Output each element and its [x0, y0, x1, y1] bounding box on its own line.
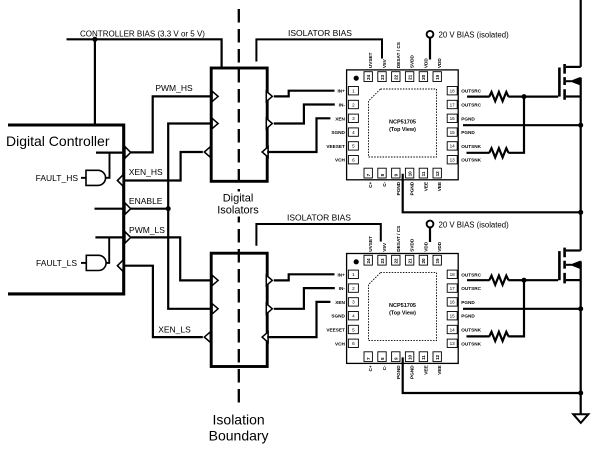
- wire PWM_HS: [131, 96, 211, 152]
- svg-text:OUTSNK: OUTSNK: [461, 144, 481, 149]
- U1 pin 13 OUTSNK: [447, 156, 481, 164]
- wire PGND HS: [463, 124, 581, 126]
- U6 pin 7 C+: [364, 352, 373, 372]
- wire OUTSNK resistor to gate node HS: [508, 97, 524, 153]
- transistor Q1 channel bar: [563, 64, 566, 100]
- transistor Q1 body stub and arrow: [566, 78, 580, 85]
- transistor Q2 body stub and arrow: [566, 261, 580, 268]
- op-amp U1 NCP51705 gate driver body: [347, 70, 459, 180]
- pin PWM_HS output chevron: [125, 147, 131, 159]
- U6 pin 6 VCH: [335, 339, 358, 347]
- wire XEN_LS: [123, 266, 203, 337]
- svg-text:8: 8: [380, 357, 385, 360]
- U6 pin 16 PGND: [447, 298, 475, 306]
- U6 pin 19 VDD: [433, 241, 442, 265]
- U1 pin 10 PGND: [405, 168, 414, 195]
- svg-text:20 V BIAS (isolated): 20 V BIAS (isolated): [439, 31, 510, 40]
- isolator U5 digital isolator LS: [211, 253, 267, 366]
- U6 pin 11 VEE: [419, 352, 428, 375]
- svg-text:15: 15: [450, 130, 456, 135]
- U1 pin 7 C+: [364, 168, 373, 188]
- resistor R2 gate sink resistor HS: [489, 148, 508, 157]
- svg-text:Isolators: Isolators: [217, 205, 259, 217]
- U6 pin 3 XEN: [335, 298, 358, 306]
- U6 pin 2 IN-: [339, 284, 359, 292]
- svg-text:(Top View): (Top View): [389, 311, 416, 317]
- svg-text:1: 1: [352, 272, 355, 277]
- svg-text:6: 6: [352, 341, 355, 346]
- svg-text:3: 3: [352, 300, 355, 305]
- op-amp U6 NCP51705 gate driver body: [347, 254, 459, 364]
- label Isolation Boundary: [209, 411, 269, 443]
- wire ENABLE stub: [95, 208, 124, 210]
- wire PWM_HS stub: [96, 152, 124, 154]
- U6 pin 24 UVSET: [364, 236, 373, 265]
- svg-text:23: 23: [380, 258, 385, 264]
- U1 pin 16 PGND: [447, 114, 475, 122]
- U4 digital isolator HS right output chevron B: [266, 118, 272, 128]
- U6 pin 22 DESAT / CS: [392, 226, 401, 265]
- U6 pin 17 OUTSRC: [447, 284, 481, 292]
- label Digital Isolators: [216, 192, 261, 217]
- svg-text:24: 24: [366, 74, 371, 80]
- svg-text:8: 8: [380, 173, 385, 176]
- isolator U4 digital isolator HS: [211, 68, 267, 181]
- svg-text:5: 5: [352, 144, 355, 149]
- wire PWM_LS: [131, 237, 211, 280]
- pin XEN_HS input chevron: [117, 175, 123, 187]
- svg-text:3: 3: [352, 116, 355, 121]
- svg-text:VEE: VEE: [437, 365, 442, 374]
- svg-text:UVSET: UVSET: [368, 52, 373, 68]
- svg-text:20: 20: [421, 258, 426, 264]
- svg-text:7: 7: [366, 173, 371, 176]
- transistor Q2 source stub: [566, 279, 581, 281]
- U6 pin 12 VEE: [433, 352, 442, 375]
- U1 pin 4 SGND: [331, 128, 358, 136]
- wire HS source rail: [580, 78, 582, 251]
- net ISOLATOR BIAS wire HS: [256, 39, 382, 61]
- svg-text:VCH: VCH: [335, 341, 346, 346]
- U1 pin 6 VCH: [335, 156, 358, 164]
- wire OUTSRC resistor to gate node HS: [508, 95, 524, 97]
- svg-text:OUTSRC: OUTSRC: [461, 286, 481, 291]
- junction gate node HS: [522, 94, 527, 99]
- wire PGND bottom LS: [403, 357, 581, 393]
- svg-text:Isolation: Isolation: [213, 411, 265, 427]
- svg-text:10: 10: [407, 171, 412, 177]
- U1 pin 9 PGND: [392, 168, 401, 195]
- pin XEN_LS input chevron: [117, 260, 123, 272]
- wire LS source rail to ground: [580, 261, 582, 414]
- net ISOLATOR BIAS wire LS: [256, 224, 380, 246]
- svg-text:22: 22: [394, 74, 399, 80]
- transistor Q2 drain stub: [566, 249, 581, 251]
- wire PWM_LS stub: [95, 236, 123, 238]
- svg-text:PGND: PGND: [410, 181, 415, 195]
- svg-text:SGND: SGND: [331, 130, 345, 135]
- wire gate node to MOSFET gate HS: [524, 95, 558, 97]
- wire PGND bottom HS: [403, 174, 581, 213]
- U6 pin 23 V5V: [378, 242, 387, 265]
- svg-text:16: 16: [450, 300, 456, 305]
- U6 pin 15 PGND: [447, 312, 475, 320]
- wire OUTSNK resistor to gate node LS: [508, 280, 524, 336]
- svg-text:NCP51705: NCP51705: [389, 303, 416, 309]
- wire ENABLE to HS isolator: [168, 124, 210, 209]
- svg-text:18: 18: [450, 272, 456, 277]
- U6 pin 20 VDD: [419, 241, 428, 265]
- wire gate node to MOSFET gate LS: [524, 279, 558, 281]
- svg-text:11: 11: [421, 355, 426, 360]
- svg-text:PGND: PGND: [461, 314, 475, 319]
- U1 pin 11 VEE: [419, 168, 428, 191]
- svg-text:OUTSNK: OUTSNK: [461, 328, 481, 333]
- svg-text:19: 19: [435, 258, 440, 264]
- svg-text:SVDD: SVDD: [410, 54, 415, 68]
- U1 pin 24 UVSET: [364, 52, 373, 81]
- U1 pin 20 VDD: [419, 58, 428, 82]
- svg-text:2: 2: [352, 286, 355, 291]
- U6 pin 8 C-: [378, 352, 387, 371]
- U6 pin 4 SGND: [331, 312, 358, 320]
- U1 pin 3 XEN: [335, 114, 358, 122]
- gate U2 FAULT_HS AND gate: [86, 170, 106, 185]
- wire HS drain to top bus: [580, 0, 582, 67]
- svg-text:7: 7: [366, 357, 371, 360]
- wire IN- LS: [274, 288, 335, 309]
- svg-text:FAULT_LS: FAULT_LS: [36, 258, 77, 268]
- isolation boundary dashed line: [238, 9, 240, 408]
- svg-text:FAULT_HS: FAULT_HS: [36, 173, 79, 183]
- svg-text:18: 18: [450, 89, 456, 94]
- svg-text:5: 5: [352, 327, 355, 332]
- svg-text:16: 16: [450, 116, 456, 121]
- U4 digital isolator HS right output chevron A: [266, 91, 272, 101]
- svg-text:(Top View): (Top View): [389, 127, 416, 133]
- svg-text:Digital: Digital: [223, 193, 254, 205]
- svg-text:XEN: XEN: [335, 116, 345, 121]
- U5 digital isolator LS right output chevron B: [266, 304, 272, 314]
- svg-text:OUTSNK: OUTSNK: [461, 341, 481, 346]
- svg-text:14: 14: [450, 327, 456, 332]
- svg-text:9: 9: [394, 357, 399, 360]
- svg-text:2: 2: [352, 102, 355, 107]
- svg-text:VDD: VDD: [423, 241, 428, 252]
- transistor Q1 gate bar: [558, 68, 561, 97]
- wire FAULT_LS input stub: [81, 262, 87, 264]
- U6 pin 13 OUTSNK: [447, 339, 481, 347]
- U4 digital isolator HS input chevron B: [212, 118, 218, 128]
- wire FAULT_HS input stub: [81, 177, 86, 179]
- wire IN+ LS: [274, 274, 335, 280]
- wire OUTSNK LS: [467, 335, 490, 337]
- U1 pin 8 C-: [378, 168, 387, 187]
- svg-text:Digital Controller: Digital Controller: [6, 133, 110, 149]
- svg-text:11: 11: [421, 171, 426, 176]
- svg-text:UVSET: UVSET: [368, 236, 373, 252]
- svg-text:PWM_HS: PWM_HS: [155, 83, 193, 93]
- pin ENABLE output chevron: [125, 203, 131, 215]
- transistor Q2 gate bar: [558, 251, 561, 280]
- svg-text:20: 20: [421, 74, 426, 80]
- pin PWM_LS output chevron: [125, 232, 131, 244]
- U4 digital isolator HS right input chevron XEN: [262, 147, 268, 157]
- wire FAULT_LS gate output: [106, 237, 109, 263]
- U1 pin 2 IN-: [339, 100, 359, 108]
- svg-text:NCP51705: NCP51705: [389, 120, 416, 126]
- digital controller block: [6, 125, 124, 294]
- svg-text:C-: C-: [382, 365, 387, 370]
- terminal 20 V BIAS (isolated) HS: [427, 31, 434, 60]
- U1 pin 12 VEE: [433, 168, 442, 191]
- U1 pin 14 OUTSNK: [447, 142, 481, 150]
- transistor Q1 drain stub: [566, 66, 581, 68]
- svg-text:PGND: PGND: [461, 116, 475, 121]
- svg-text:13: 13: [450, 341, 456, 346]
- svg-text:15: 15: [450, 314, 456, 319]
- svg-text:20 V BIAS (isolated): 20 V BIAS (isolated): [439, 220, 510, 229]
- wire IN+ HS: [274, 91, 335, 97]
- U6 pin 1 IN+: [337, 270, 358, 278]
- wire OUTSNK HS: [467, 152, 490, 154]
- junction VEE return HS: [578, 210, 583, 215]
- svg-text:VCH: VCH: [335, 158, 346, 163]
- gate U3 FAULT_LS AND gate: [86, 255, 106, 270]
- U1 pin 1 IN+: [337, 87, 358, 95]
- svg-text:C+: C+: [368, 182, 373, 188]
- svg-text:DESAT / CS: DESAT / CS: [396, 226, 401, 252]
- svg-text:C+: C+: [368, 365, 373, 371]
- ground: [573, 414, 588, 423]
- svg-text:17: 17: [450, 102, 456, 107]
- svg-text:PWM_LS: PWM_LS: [129, 225, 165, 235]
- svg-text:6: 6: [352, 158, 355, 163]
- transistor Q2 channel bar: [563, 248, 566, 284]
- svg-text:VEESET: VEESET: [326, 328, 345, 333]
- svg-text:DESAT / CS: DESAT / CS: [396, 42, 401, 68]
- wire OUTSRC HS: [467, 95, 490, 97]
- svg-text:VDD: VDD: [423, 58, 428, 69]
- svg-text:SVDD: SVDD: [410, 238, 415, 252]
- U4 digital isolator HS output chevron XEN: [204, 147, 210, 157]
- terminal 20 V BIAS (isolated) LS: [427, 221, 434, 242]
- svg-text:IN+: IN+: [337, 89, 345, 94]
- U6 pin 9 PGND: [392, 352, 401, 379]
- U1 pin 17 OUTSRC: [447, 100, 481, 108]
- U6 pin 14 OUTSNK: [447, 325, 481, 333]
- junction PGND source HS: [578, 123, 583, 128]
- svg-text:12: 12: [435, 171, 440, 177]
- svg-text:21: 21: [407, 258, 412, 264]
- U1 pin 5 VEESET: [326, 142, 358, 150]
- svg-text:XEN_LS: XEN_LS: [158, 325, 191, 335]
- U1 pin 19 VDD: [433, 58, 442, 82]
- U1 pin 15 PGND: [447, 128, 475, 136]
- U1 pin 22 DESAT / CS: [392, 42, 401, 81]
- svg-text:17: 17: [450, 286, 456, 291]
- svg-text:ISOLATOR BIAS: ISOLATOR BIAS: [287, 213, 351, 223]
- svg-text:IN-: IN-: [339, 286, 346, 291]
- junction PGND source LS: [578, 306, 583, 311]
- svg-text:OUTSRC: OUTSRC: [461, 103, 481, 108]
- U5 digital isolator LS output chevron XEN: [204, 332, 210, 342]
- svg-text:13: 13: [450, 158, 456, 163]
- U6 pin 18 OUTSRC: [447, 270, 481, 278]
- junction gate node LS: [522, 278, 527, 283]
- wire controller bias to controller: [94, 39, 96, 123]
- wire XEN HS: [267, 118, 330, 152]
- U5 digital isolator LS right input chevron XEN: [262, 332, 268, 342]
- svg-text:19: 19: [435, 74, 440, 80]
- U5 digital isolator LS right output chevron A: [266, 275, 272, 285]
- svg-text:VEE: VEE: [437, 182, 442, 191]
- svg-text:VEE: VEE: [423, 182, 428, 191]
- svg-text:9: 9: [394, 173, 399, 176]
- svg-text:OUTSNK: OUTSNK: [461, 158, 481, 163]
- svg-text:10: 10: [407, 354, 412, 360]
- svg-text:VDD: VDD: [437, 241, 442, 252]
- svg-text:CONTROLLER BIAS (3.3 V or 5 V): CONTROLLER BIAS (3.3 V or 5 V): [80, 29, 205, 38]
- svg-text:ENABLE: ENABLE: [129, 196, 163, 206]
- svg-text:14: 14: [450, 144, 456, 149]
- svg-text:VEESET: VEESET: [326, 144, 345, 149]
- U5 digital isolator LS input chevron B: [212, 304, 218, 314]
- svg-text:PGND: PGND: [410, 365, 415, 379]
- junction VEE return LS: [578, 391, 583, 396]
- wire OUTSRC resistor to gate node LS: [508, 279, 524, 281]
- U5 digital isolator LS input chevron A: [212, 275, 218, 285]
- wire PGND LS: [463, 308, 581, 310]
- wire ENABLE: [131, 208, 169, 210]
- svg-text:PGND: PGND: [461, 130, 475, 135]
- svg-text:OUTSRC: OUTSRC: [461, 89, 481, 94]
- svg-text:XEN_HS: XEN_HS: [129, 167, 163, 177]
- resistor R1 gate source resistor HS: [489, 92, 508, 101]
- wire FAULT_HS gate output: [105, 153, 109, 178]
- svg-text:IN+: IN+: [337, 272, 345, 277]
- U6 pin 10 PGND: [405, 352, 414, 379]
- svg-text:PGND: PGND: [396, 365, 401, 379]
- wire OUTSRC LS: [467, 279, 490, 281]
- svg-text:21: 21: [407, 74, 412, 80]
- svg-text:ISOLATOR BIAS: ISOLATOR BIAS: [288, 28, 352, 38]
- svg-text:12: 12: [435, 354, 440, 360]
- svg-text:1: 1: [352, 89, 355, 94]
- svg-text:IN-: IN-: [339, 103, 346, 108]
- U1 pin 18 OUTSRC: [447, 87, 481, 95]
- svg-text:SGND: SGND: [331, 314, 345, 319]
- resistor R4 gate sink resistor LS: [489, 332, 508, 341]
- resistor R3 gate source resistor LS: [489, 276, 508, 285]
- U1 pin 21 SVDD: [405, 54, 414, 81]
- U6 pin 21 SVDD: [405, 238, 414, 265]
- svg-text:VEE: VEE: [423, 365, 428, 374]
- transistor Q1 source stub: [566, 95, 581, 97]
- svg-text:V5V: V5V: [382, 58, 387, 68]
- U4 digital isolator HS input chevron A: [212, 91, 218, 101]
- svg-text:C-: C-: [382, 181, 387, 186]
- wire ENABLE to LS isolator: [168, 209, 210, 309]
- U1 pin 23 V5V: [378, 58, 387, 81]
- svg-text:V5V: V5V: [382, 242, 387, 252]
- junction controller bias: [92, 37, 97, 42]
- svg-text:22: 22: [394, 258, 399, 264]
- svg-text:4: 4: [352, 314, 355, 319]
- svg-text:Boundary: Boundary: [209, 427, 269, 443]
- wire XEN LS: [267, 302, 330, 337]
- svg-text:4: 4: [352, 130, 355, 135]
- svg-text:24: 24: [366, 258, 371, 264]
- wire XEN_HS: [123, 152, 203, 181]
- net CONTROLLER BIAS wire: [67, 39, 222, 67]
- svg-text:VDD: VDD: [437, 58, 442, 69]
- svg-text:XEN: XEN: [335, 300, 345, 305]
- svg-text:PGND: PGND: [396, 181, 401, 195]
- svg-text:23: 23: [380, 74, 385, 80]
- svg-text:PGND: PGND: [461, 300, 475, 305]
- U6 pin 5 VEESET: [326, 325, 358, 333]
- wire IN- HS: [274, 105, 335, 124]
- junction ENABLE: [166, 206, 171, 211]
- svg-text:OUTSRC: OUTSRC: [461, 272, 481, 277]
